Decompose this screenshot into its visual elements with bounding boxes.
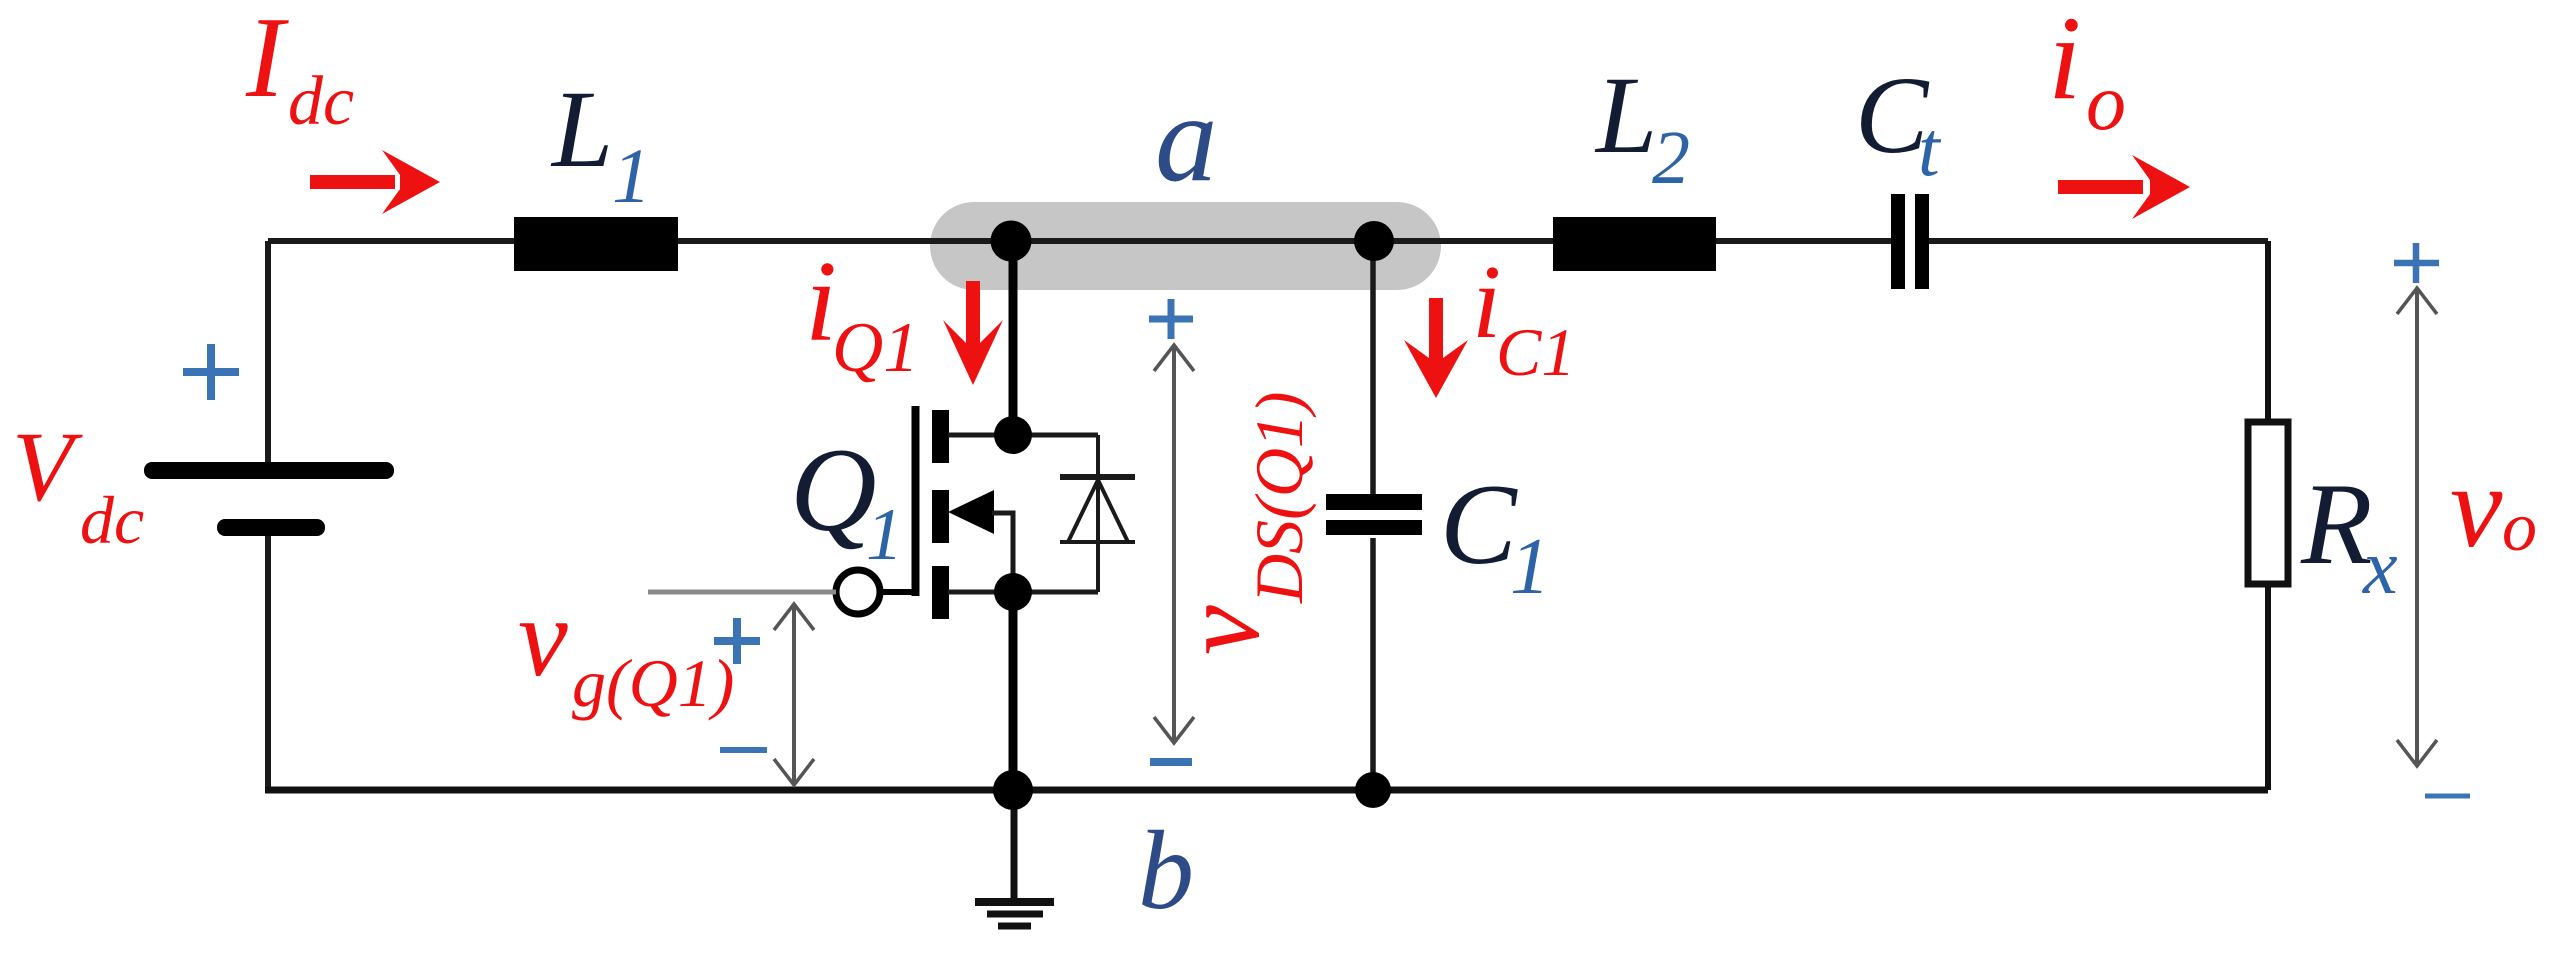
body diode cathode bar bbox=[1060, 474, 1135, 480]
svg-text:dc: dc bbox=[80, 482, 144, 558]
plus battery bbox=[183, 344, 239, 400]
node dot source bbox=[994, 573, 1032, 611]
svg-text:V: V bbox=[12, 411, 83, 522]
minus vg bbox=[720, 747, 767, 753]
node dot drain bbox=[994, 416, 1032, 454]
svg-text:I: I bbox=[245, 0, 289, 121]
svg-text:v: v bbox=[2450, 441, 2503, 572]
inductor L1 bbox=[514, 217, 678, 271]
transistor Q1 body wire bbox=[992, 513, 1013, 592]
svg-text:1: 1 bbox=[866, 494, 903, 576]
node dot a-right bbox=[1354, 221, 1394, 261]
svg-text:v: v bbox=[1159, 605, 1283, 655]
body diode branch wire bbox=[1096, 435, 1100, 592]
minus vo bbox=[2425, 794, 2470, 799]
svg-text:DS(Q1): DS(Q1) bbox=[1241, 391, 1317, 604]
gate link wire bbox=[880, 589, 912, 595]
body diode triangle bbox=[1068, 480, 1128, 542]
svg-text:a: a bbox=[1155, 70, 1218, 208]
wire bottom rail bbox=[265, 787, 2268, 794]
svg-text:b: b bbox=[1138, 809, 1194, 933]
svg-text:1: 1 bbox=[1510, 523, 1550, 611]
svg-text:o: o bbox=[2086, 59, 2126, 147]
svg-text:C1: C1 bbox=[1496, 314, 1575, 390]
node dot a-left bbox=[991, 221, 1032, 262]
svg-text:o: o bbox=[2502, 489, 2537, 566]
node a highlight capsule bbox=[930, 202, 1441, 290]
node dot rail-center bbox=[993, 770, 1033, 810]
svg-text:L: L bbox=[1594, 54, 1657, 176]
battery V1 plate long bbox=[144, 462, 394, 479]
plus vDS bbox=[1149, 299, 1193, 339]
capacitor Ct plates bbox=[1891, 194, 1905, 289]
svg-text:L: L bbox=[550, 68, 613, 190]
measure arrow vDS bbox=[1154, 345, 1194, 743]
svg-text:Q1: Q1 bbox=[832, 309, 919, 387]
current arrow iQ1 bbox=[943, 281, 1003, 385]
transistor Q1 drain wire bbox=[948, 433, 1098, 438]
transistor Q1 gate line bbox=[912, 406, 920, 596]
svg-text:dc: dc bbox=[288, 63, 354, 140]
svg-text:t: t bbox=[1918, 105, 1942, 192]
body diode anode bar bbox=[1060, 540, 1135, 544]
measure arrow vo bbox=[2397, 288, 2437, 766]
svg-text:Q: Q bbox=[790, 423, 877, 556]
svg-text:2: 2 bbox=[1652, 116, 1690, 200]
node dot rail-C1 bbox=[1355, 772, 1391, 808]
current arrow iC1 bbox=[1404, 298, 1468, 398]
measure arrow vg bbox=[774, 604, 814, 785]
svg-text:1: 1 bbox=[612, 132, 651, 219]
plus vg bbox=[714, 618, 760, 664]
ground bars bbox=[975, 898, 1054, 906]
plus vo bbox=[2394, 243, 2439, 283]
transistor Q1 drain lead bbox=[1009, 241, 1018, 435]
current arrow io bbox=[2058, 155, 2190, 219]
wire C1 branch bbox=[1370, 241, 1376, 790]
battery V1 plate short bbox=[217, 519, 325, 536]
ground stem bbox=[1011, 790, 1018, 902]
gate circle bbox=[836, 570, 880, 614]
minus vDS bbox=[1150, 758, 1192, 766]
transistor Q1 body arrow bbox=[948, 490, 994, 534]
svg-text:g(Q1): g(Q1) bbox=[572, 645, 734, 721]
svg-text:v: v bbox=[518, 576, 568, 700]
resistor Rx bbox=[2248, 422, 2288, 584]
gate drive wire gray bbox=[648, 590, 836, 595]
svg-text:R: R bbox=[2300, 460, 2372, 589]
current arrow Idc bbox=[310, 150, 440, 214]
capacitor C1 plates bbox=[1326, 494, 1422, 510]
transistor Q1 source lead bbox=[1009, 592, 1018, 790]
svg-text:x: x bbox=[2362, 523, 2398, 610]
wire right vertical bbox=[2265, 241, 2271, 790]
transistor Q1 channel bars bbox=[932, 410, 949, 463]
wire top rail bbox=[268, 238, 2268, 244]
svg-text:C: C bbox=[1440, 461, 1518, 588]
transistor Q1 source wire bbox=[948, 590, 1098, 595]
inductor L2 bbox=[1553, 217, 1716, 271]
svg-text:i: i bbox=[2048, 0, 2081, 124]
label vDS(Q1) rotated bbox=[1159, 391, 1317, 655]
wire left vertical bbox=[265, 241, 271, 787]
